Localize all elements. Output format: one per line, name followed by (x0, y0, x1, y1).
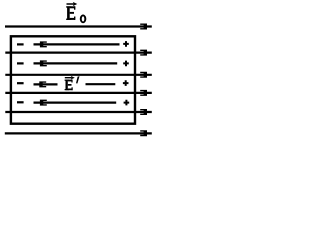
row 2: minus charge (17, 62, 24, 64)
row 3: minus charge (17, 82, 24, 84)
row 3: line segment after label (86, 83, 116, 85)
row 4: minus charge (17, 101, 24, 103)
label E0 (external field): letter E (66, 6, 75, 20)
wire: bottom external field line (5, 132, 152, 134)
wire: field line D4 through slab (5, 111, 152, 113)
wire: field line D2 through slab (5, 74, 152, 76)
row 4: internal field arrow (left) (34, 101, 117, 103)
label E' (internal field): letter E (65, 80, 73, 91)
row 4: plus charge (124, 100, 130, 106)
prime of E' (76, 76, 80, 83)
arrowhead D2 (140, 72, 147, 78)
row 3: plus charge (123, 80, 129, 86)
wire: top external field line E0 (5, 25, 152, 27)
wire: field line D1 through slab (5, 51, 152, 53)
arrowhead of top field line (140, 24, 147, 30)
label E0: subscript 0 (80, 15, 87, 24)
row 1: internal field arrow (left) (34, 43, 120, 45)
slab rectangle (11, 36, 135, 123)
row 3: internal field arrow (left) (34, 83, 58, 85)
row 1: minus charge (17, 43, 24, 45)
wire: field line D3 through slab (5, 92, 152, 94)
arrowhead bottom field line (140, 130, 147, 136)
arrowhead D3 (140, 90, 147, 96)
vector arrow over E0 (67, 2, 78, 6)
row 2: plus charge (123, 61, 129, 67)
row 2: internal field arrow (left) (34, 62, 118, 64)
row 1: plus charge (123, 41, 129, 47)
arrowhead D4 (140, 109, 147, 115)
arrowhead D1 (140, 50, 147, 56)
vector arrow over E' (65, 76, 75, 80)
